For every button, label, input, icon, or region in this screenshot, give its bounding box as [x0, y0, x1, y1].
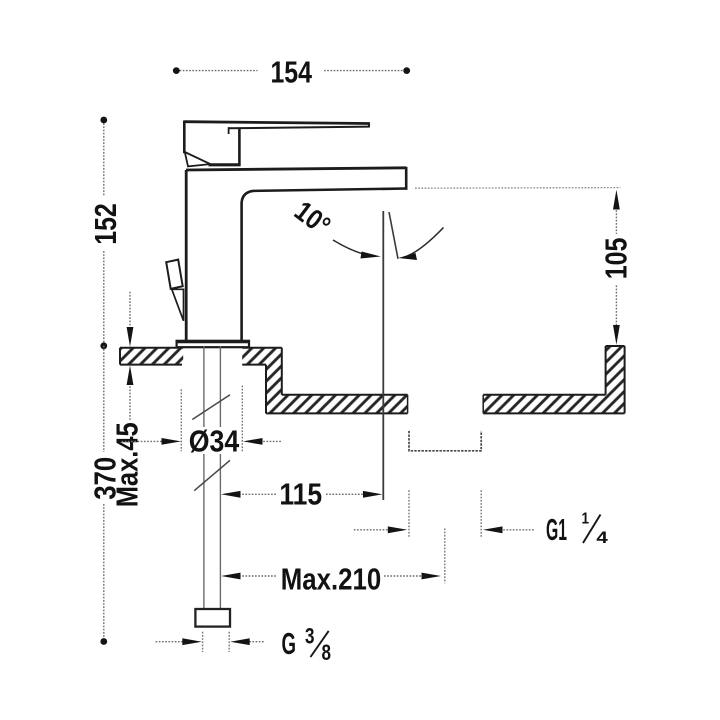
svg-text:3: 3: [305, 623, 315, 648]
svg-text:115: 115: [279, 476, 322, 511]
basin left wall outline: [242, 348, 407, 414]
drain outline: [409, 431, 481, 451]
dimension 115 left arrow: [239, 493, 276, 495]
base plate top thick line: [176, 340, 250, 343]
svg-text:154: 154: [270, 54, 312, 89]
spout underside and body right edge: [242, 189, 407, 342]
dimension 370 end dot: [100, 638, 107, 645]
basin right wall outline: [483, 346, 624, 413]
pipe break line 1: [192, 395, 230, 420]
svg-text:1: 1: [582, 511, 590, 528]
svg-text:105: 105: [599, 238, 634, 280]
dimension 115 right arrow: [326, 493, 364, 495]
drain dim extension line left: [408, 490, 410, 537]
svg-text:G1: G1: [546, 512, 567, 547]
svg-text:Max.210: Max.210: [281, 561, 381, 596]
G 3/8 tick left: [202, 632, 204, 652]
dimension 152 line: [103, 120, 105, 346]
dimension Max.45 upper arrow: [127, 292, 134, 347]
dimension O34 extension lines: [180, 389, 182, 451]
side lever paddle: [166, 260, 183, 289]
spout right end cap: [405, 167, 408, 190]
dimension Max.210 left arrow: [239, 575, 277, 577]
connection nut: [195, 609, 230, 627]
angle arc right: [404, 228, 444, 258]
lever underside left stub: [228, 127, 230, 134]
svg-text:G: G: [282, 626, 297, 661]
svg-text:152: 152: [88, 203, 123, 245]
G1 1/4 arrow: [500, 529, 535, 531]
dimension O34 left arrow: [122, 440, 165, 442]
angle arc left: [333, 240, 374, 256]
dimension Max.210 extension line: [444, 528, 446, 583]
dimension 105 line lower: [615, 285, 617, 327]
countertop left band hatch: [120, 348, 183, 365]
G 3/8 left arrow: [156, 641, 185, 643]
faucet body top / spout top: [186, 168, 406, 170]
base plate: [177, 341, 249, 347]
svg-text:Ø34: Ø34: [189, 424, 240, 459]
countertop left band outline: [120, 348, 183, 365]
water stream line: [382, 211, 384, 500]
dimension 154 end dots: [173, 67, 180, 74]
dimension 370 line: [103, 346, 105, 642]
supply pipe left line: [203, 346, 205, 609]
dimension O34 right arrow: [260, 440, 282, 442]
faucet lever left edge: [183, 121, 186, 154]
drain dim left arrow: [354, 529, 390, 531]
G 3/8 tick right: [228, 632, 230, 652]
basin left wall hatch: [242, 348, 407, 414]
dimension Max.45 lower arrow: [127, 365, 134, 421]
supply pipe right line: [219, 346, 221, 609]
G 3/8 text: [282, 623, 332, 665]
faucet lever underside: [228, 127, 369, 129]
svg-text:8: 8: [322, 640, 332, 665]
dimension 152 end dots: [100, 117, 107, 124]
faucet lever right cap: [368, 122, 370, 127]
G 3/8 right arrow: [246, 641, 264, 643]
dimension O34 text: [187, 427, 241, 454]
side lever wedge: [172, 289, 184, 321]
faucet body left edge: [185, 170, 188, 341]
dimension 105 extension line: [415, 187, 620, 190]
faucet lever block right edge: [238, 128, 241, 167]
stream angled line: [389, 212, 398, 259]
basin right wall hatch: [483, 346, 624, 413]
G1 1/4 text: [546, 511, 608, 548]
drain dim extension line right: [480, 490, 482, 537]
dimension 105 line upper: [615, 207, 617, 234]
svg-text:Max.45: Max.45: [109, 422, 144, 507]
faucet lever top line: [184, 122, 369, 124]
dimension 154 line: [176, 70, 406, 72]
dimension Max.210 right arrow: [384, 575, 423, 577]
svg-text:4: 4: [596, 528, 608, 547]
faucet lever tip wedge: [185, 152, 211, 166]
faucet lever block bottom: [209, 163, 241, 166]
pipe break line 2: [194, 460, 230, 490]
